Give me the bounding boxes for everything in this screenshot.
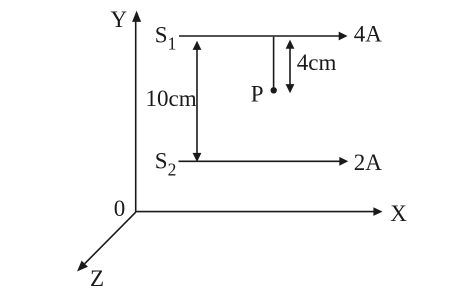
svg-text:P: P [251, 81, 264, 106]
svg-text:0: 0 [114, 196, 126, 221]
svg-text:S1: S1 [155, 22, 177, 53]
4cm dimension double arrow [286, 40, 295, 94]
10cm dimension double arrow [193, 41, 202, 162]
svg-text:4A: 4A [354, 22, 383, 47]
Z axis [77, 212, 136, 271]
svg-text:Y: Y [111, 7, 128, 32]
svg-text:2A: 2A [354, 150, 383, 175]
svg-text:10cm: 10cm [146, 86, 197, 111]
X axis [136, 207, 383, 216]
Y axis [132, 11, 141, 213]
point P (dot) [271, 87, 277, 93]
svg-text:4cm: 4cm [297, 50, 337, 75]
svg-text:Z: Z [90, 266, 104, 291]
wire S1 carrying 4A [179, 32, 348, 41]
svg-text:X: X [390, 201, 407, 226]
svg-text:S2: S2 [155, 149, 177, 180]
drop line from wire S1 down to point P [273, 37, 275, 88]
wire S2 carrying 2A [179, 157, 349, 166]
